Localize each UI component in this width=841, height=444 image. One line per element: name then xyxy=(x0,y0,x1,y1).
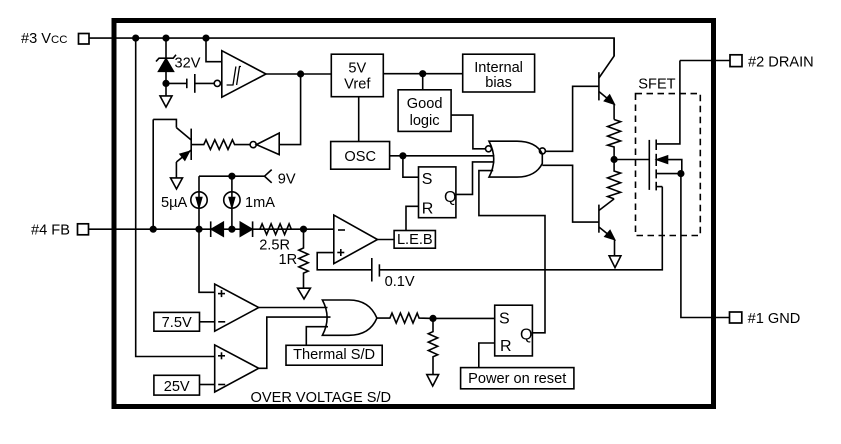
box 5V Vref xyxy=(331,54,383,96)
node gate drive xyxy=(611,157,617,163)
wire latch2 Q to NOR input xyxy=(479,171,545,333)
dashed box SFET xyxy=(636,94,701,236)
wire LEB to latch1 R xyxy=(406,206,419,230)
box 7.5V reference xyxy=(154,312,200,331)
svg-text:25V: 25V xyxy=(164,379,190,395)
svg-text:logic: logic xyxy=(410,113,440,129)
svg-text:Vref: Vref xyxy=(344,77,371,93)
wire 7.5V comp output to OR xyxy=(259,307,328,309)
op-amp U6 25V comparator xyxy=(215,345,259,392)
node FB-B xyxy=(196,226,202,232)
gate G1 NOR xyxy=(486,141,546,177)
wire drain to pin xyxy=(680,60,730,62)
current source I1 5uA xyxy=(191,176,207,229)
box OSC xyxy=(331,142,390,170)
wire NOR lower output to lower driver base xyxy=(542,165,599,222)
resistor base drive xyxy=(191,140,250,150)
svg-text:Q: Q xyxy=(444,189,456,206)
node VCC-C xyxy=(203,35,209,41)
wire FB to 7.5V comparator xyxy=(199,229,215,292)
wire Thermal SD to OR xyxy=(306,327,328,346)
wire OSC output xyxy=(390,155,495,157)
svg-text:Thermal S/D: Thermal S/D xyxy=(293,347,375,363)
op-amp U3 PWM comparator xyxy=(334,215,378,264)
IC outer border xyxy=(114,21,714,407)
resistor driver upper xyxy=(608,120,621,160)
box Thermal S/D xyxy=(286,345,382,365)
node zener/battery xyxy=(163,81,169,87)
wire SFET source to GND pin xyxy=(681,174,730,318)
svg-text:#3 VCC: #3 VCC xyxy=(21,31,67,47)
svg-text:5V: 5V xyxy=(348,61,366,77)
ground below Q3 xyxy=(609,256,621,268)
wire gate drive to SFET xyxy=(614,159,649,161)
box Power on reset xyxy=(461,368,574,389)
svg-text:32V: 32V xyxy=(175,56,201,72)
svg-text:#2 DRAIN: #2 DRAIN xyxy=(748,54,814,70)
svg-text:S: S xyxy=(422,171,433,188)
pin pad #4 FB xyxy=(78,224,89,235)
transistor Q2 NPN upper driver xyxy=(599,38,614,119)
wire 7.5V to comparator minus xyxy=(200,321,215,323)
ground below Q1 xyxy=(171,178,183,189)
supply 9V tap xyxy=(199,170,272,183)
wire current sense line xyxy=(379,187,662,270)
svg-text:0.1V: 0.1V xyxy=(385,274,415,290)
node VCC-A xyxy=(133,35,139,41)
wire bias node to Good logic xyxy=(422,74,424,90)
current source I2 1mA xyxy=(224,176,240,229)
wire PWM plus input xyxy=(317,253,372,270)
svg-text:OVER VOLTAGE S/D: OVER VOLTAGE S/D xyxy=(251,390,392,406)
box Internal bias xyxy=(463,54,535,92)
ground below pulldown xyxy=(427,375,439,386)
svg-text:R: R xyxy=(422,200,434,217)
svg-text:S: S xyxy=(499,311,510,328)
op-amp U5 7.5V comparator xyxy=(215,284,259,331)
svg-text:#1 GND: #1 GND xyxy=(748,311,801,327)
ground below 1R xyxy=(298,288,311,299)
wire to latch2 S xyxy=(433,317,495,319)
node SFET source xyxy=(678,171,684,177)
svg-text:bias: bias xyxy=(485,75,512,91)
resistor 1R xyxy=(299,229,308,288)
ground below zener xyxy=(160,96,172,107)
pin pad #2 DRAIN xyxy=(730,55,742,67)
node FB-C xyxy=(301,226,307,232)
label L.E.B xyxy=(394,231,435,249)
wire PWM output to LEB xyxy=(378,239,395,241)
diode D1 xyxy=(211,221,224,237)
wire VCC to 25V comparator xyxy=(136,38,215,356)
wire OSC to latch S xyxy=(403,156,419,177)
wire schmitt output to 5V Vref xyxy=(266,73,331,75)
latch U4 S/R xyxy=(419,167,456,218)
wire schmitt output to inverter xyxy=(279,74,300,145)
svg-text:R: R xyxy=(500,338,512,355)
wire Vref to bias xyxy=(383,73,462,75)
wire VCC rail xyxy=(89,38,614,56)
resistor OR output xyxy=(377,313,433,323)
svg-text:7.5V: 7.5V xyxy=(162,315,192,331)
wire latch1 Q to NOR input xyxy=(456,162,495,195)
wire 25V comp output to OR xyxy=(259,317,331,368)
diode D2 xyxy=(240,221,252,237)
svg-text:SFET: SFET xyxy=(638,77,675,93)
battery reference at UVLO input xyxy=(166,74,214,93)
wire 25V to comparator minus xyxy=(200,384,215,386)
node latch2 S input xyxy=(430,316,436,322)
latch U7 S/R xyxy=(495,305,533,356)
wire POR to latch R xyxy=(479,343,495,368)
inverter U2 xyxy=(250,133,279,155)
svg-text:Power on reset: Power on reset xyxy=(468,371,566,387)
pin pad #1 GND xyxy=(730,312,742,323)
node Vref output xyxy=(420,71,426,77)
svg-text:5µA: 5µA xyxy=(161,195,188,211)
node VCC-B xyxy=(163,35,169,41)
transistor M1 SenseFET xyxy=(649,61,682,191)
transistor Q3 NPN lower driver xyxy=(599,199,615,256)
wire Good logic to NOR input xyxy=(451,115,485,149)
wire NOR output to upper driver base xyxy=(545,86,599,151)
wire FB line xyxy=(89,228,334,230)
gate G2 OR xyxy=(322,300,377,335)
battery 0.1V offset xyxy=(372,258,380,282)
resistor 2.5R xyxy=(260,224,291,235)
resistor pulldown xyxy=(428,318,437,374)
node FB diode center xyxy=(229,226,235,232)
svg-text:1mA: 1mA xyxy=(245,195,275,211)
node OSC output xyxy=(400,153,406,159)
box Good logic xyxy=(398,90,451,132)
svg-text:#4 FB: #4 FB xyxy=(31,222,70,238)
zener diode 32V xyxy=(156,38,176,96)
svg-text:OSC: OSC xyxy=(344,149,376,165)
svg-text:Q: Q xyxy=(520,327,532,344)
node schmitt output xyxy=(298,71,304,77)
svg-text:9V: 9V xyxy=(278,172,296,188)
svg-text:Internal: Internal xyxy=(474,60,523,76)
svg-text:Good: Good xyxy=(407,96,443,112)
node 9V rail xyxy=(229,173,235,179)
resistor driver lower xyxy=(608,160,621,199)
wire Vref to OSC xyxy=(358,97,360,142)
wire Q1 collector to FB xyxy=(152,119,154,229)
op-amp U1 UVLO schmitt trigger xyxy=(206,38,266,97)
transistor Q1 PNP xyxy=(153,119,191,177)
pin pad #3 VCC xyxy=(79,34,90,45)
svg-text:L.E.B: L.E.B xyxy=(397,232,433,248)
svg-text:1R: 1R xyxy=(279,252,298,268)
node FB-A xyxy=(150,226,156,232)
box 25V reference xyxy=(154,375,200,395)
